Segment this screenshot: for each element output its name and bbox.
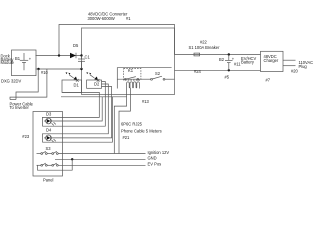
capacitor C1	[78, 55, 90, 70]
svg-text:B2: B2	[219, 57, 225, 62]
wire bus H1 to D3 top	[42, 92, 99, 126]
svg-text:#7: #7	[266, 78, 271, 83]
charger U2 box	[261, 51, 284, 71]
wire battery top rail	[36, 55, 82, 57]
converter U1 box	[82, 28, 175, 95]
wire bus to D3 row	[51, 97, 102, 121]
svg-text:Ignition 12V: Ignition 12V	[148, 150, 170, 155]
svg-text:D1: D1	[74, 83, 80, 88]
wire relay coil to ignition	[114, 88, 126, 154]
wire bus to D4 bottom	[42, 97, 112, 142]
wire bus to D4 top	[42, 84, 108, 142]
diode D4 LED	[44, 127, 56, 142]
node junction top rail	[58, 54, 60, 56]
battery B1	[20, 53, 28, 70]
relay module box	[117, 68, 171, 89]
panel box	[33, 112, 63, 177]
svg-text:Battery: Battery	[241, 60, 255, 65]
wire battery bottom rail	[36, 68, 82, 70]
wire inverter cable inner	[16, 69, 38, 100]
svg-text:Phone Cable 5 Meters: Phone Cable 5 Meters	[121, 129, 162, 134]
svg-text:6P6C RJ25: 6P6C RJ25	[121, 122, 143, 127]
wire bus H2	[61, 96, 127, 98]
svg-text:#5: #5	[225, 75, 230, 80]
relay K1 contacts	[125, 78, 127, 80]
svg-text:S2: S2	[155, 71, 161, 76]
battery B1 box	[12, 50, 37, 76]
breaker S1	[194, 53, 200, 56]
svg-text:#22: #22	[200, 40, 208, 45]
svg-text:Plug: Plug	[299, 64, 308, 69]
wire bus to D4 row	[51, 87, 111, 138]
svg-text:D4: D4	[46, 127, 52, 132]
node junction bottom rail	[37, 68, 39, 70]
svg-text:Charger: Charger	[264, 58, 279, 63]
svg-text:S1 100A Breaker: S1 100A Breaker	[189, 45, 221, 50]
box around D1	[62, 80, 82, 92]
wire inverter cable U bottom	[10, 99, 16, 101]
wire top loop over box	[59, 25, 175, 56]
diode D2 LED	[86, 72, 99, 82]
wire GND return	[38, 159, 73, 170]
svg-text:D2: D2	[94, 82, 100, 87]
svg-text:#1: #1	[126, 16, 131, 21]
svg-text:#20: #20	[291, 69, 299, 74]
svg-text:GND: GND	[148, 156, 157, 161]
svg-text:Panel: Panel	[43, 178, 54, 183]
svg-text:3000W-6000W: 3000W-6000W	[88, 16, 115, 21]
box around D2	[87, 80, 102, 88]
svg-text:D3: D3	[46, 112, 52, 117]
diode D1 LED	[66, 72, 79, 82]
svg-text:D5: D5	[73, 43, 79, 48]
wire ignition row	[37, 151, 146, 154]
svg-text:Module: Module	[1, 60, 15, 65]
svg-text:DXG 32DV: DXG 32DV	[1, 78, 22, 83]
wire right bottom rail	[175, 69, 261, 71]
node junction box left top	[80, 54, 82, 56]
svg-text:S3: S3	[46, 146, 52, 151]
svg-text:C1: C1	[85, 55, 91, 60]
wire GND row	[55, 158, 146, 160]
wire plug stub bottom	[283, 65, 296, 67]
node junction box left bottom	[80, 68, 82, 70]
svg-text:K1: K1	[128, 68, 134, 73]
wire bus to D3 bottom	[42, 82, 105, 127]
svg-text:EV Pos: EV Pos	[148, 162, 162, 167]
relay K1 dashed box	[124, 69, 141, 81]
switch S2	[141, 71, 175, 80]
wire plug stub top	[283, 59, 296, 61]
battery B2	[219, 53, 241, 71]
svg-text:#24: #24	[194, 69, 202, 74]
svg-text:#13: #13	[142, 99, 150, 104]
relay K1 coil	[127, 82, 140, 89]
wire right top rail	[175, 54, 261, 56]
wire inverter cable outer	[10, 69, 47, 100]
diode D5	[70, 43, 79, 58]
wire relay contact line	[117, 78, 141, 80]
svg-text:#10: #10	[41, 70, 49, 75]
svg-text:To Inverter: To Inverter	[10, 105, 30, 110]
svg-text:#21: #21	[123, 135, 131, 140]
diode D3 LED	[44, 112, 56, 126]
wire EV row	[37, 163, 146, 166]
wire relay to GND	[119, 88, 130, 154]
svg-text:#23: #23	[22, 134, 30, 139]
